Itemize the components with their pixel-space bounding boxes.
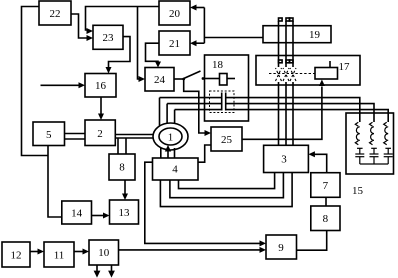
wire 10 to 9 xyxy=(119,249,261,251)
svg-text:7: 7 xyxy=(323,180,329,192)
block 25 xyxy=(211,127,242,151)
filter branches in 15 xyxy=(355,122,392,164)
capacitor plates in 18 xyxy=(221,93,223,111)
wrap wire a 4-bottom to 3-bottom xyxy=(179,173,275,189)
bus line 3 xyxy=(175,109,222,111)
svg-text:12: 12 xyxy=(11,250,22,262)
block 8 right xyxy=(311,206,340,231)
arrow into 9 lower xyxy=(260,247,267,253)
svg-text:20: 20 xyxy=(169,8,181,20)
switch pivot dots xyxy=(182,78,185,81)
switch-down wire to 25 xyxy=(184,79,205,133)
arrow into 24 top xyxy=(155,62,161,68)
relay coil 17 inner rect xyxy=(315,68,338,80)
arrow into 25 left xyxy=(205,130,212,136)
wire input arrow to 16 xyxy=(41,84,80,86)
bus line 1 xyxy=(160,97,222,99)
arrow into 21 right xyxy=(190,40,197,46)
svg-text:1: 1 xyxy=(168,132,174,144)
wire 4-right to 25 xyxy=(198,145,211,162)
arrow into 23 lower xyxy=(87,35,94,41)
svg-text:9: 9 xyxy=(278,242,284,254)
svg-text:2: 2 xyxy=(97,128,103,140)
arrow into 3 right xyxy=(308,151,315,157)
arrow into 13 top xyxy=(122,194,128,201)
block 4 xyxy=(153,158,199,180)
wire 9-right up to 8-right xyxy=(297,231,327,251)
block 16 xyxy=(85,74,116,98)
relay stub xyxy=(329,61,331,68)
wire 12 to 11 xyxy=(30,251,39,253)
block 10 xyxy=(89,240,119,265)
arrow into 16 top xyxy=(106,67,112,74)
breaker poles dashed crosses xyxy=(269,68,315,81)
arrow output 10 b xyxy=(108,271,115,278)
svg-text:25: 25 xyxy=(221,134,233,146)
block 14 xyxy=(62,201,92,224)
wire double 2 to 1 xyxy=(115,134,153,136)
wire 4-left down to 9 xyxy=(145,162,260,243)
supply terminal flags top xyxy=(279,18,283,21)
svg-text:16: 16 xyxy=(95,80,107,92)
wire 5-bottom down to 14 xyxy=(48,146,62,218)
block 17 outer xyxy=(256,56,360,86)
arrow into 2 top xyxy=(98,114,104,121)
contact flags inside 17 xyxy=(279,60,283,63)
arrow into 1 bottom up xyxy=(165,145,171,152)
arrow into 24 left xyxy=(139,76,146,82)
svg-text:23: 23 xyxy=(103,32,115,44)
block 2 xyxy=(85,120,115,146)
block 20 xyxy=(159,1,190,25)
wire 25-right up to relay 17 xyxy=(242,87,322,140)
wire 21-left to 24-top xyxy=(146,43,160,62)
wire 19-left to 20 and 21 xyxy=(204,37,263,39)
arrow into 11 xyxy=(38,249,45,255)
block 5 xyxy=(33,122,65,146)
block 11 xyxy=(44,242,74,267)
svg-text:8: 8 xyxy=(323,213,329,225)
block 15 xyxy=(346,113,394,174)
common bus in 15 xyxy=(360,163,388,165)
wire 22-right to 23 xyxy=(71,14,87,38)
block 9 xyxy=(266,235,297,259)
block 24 xyxy=(145,68,174,92)
block 18 xyxy=(205,55,249,121)
svg-text:5: 5 xyxy=(46,129,52,141)
arrow into 9 upper xyxy=(260,240,267,246)
svg-text:24: 24 xyxy=(154,74,166,86)
machine 1 outer ellipse xyxy=(153,123,188,150)
three-phase line A xyxy=(278,21,280,67)
coil line in 18 xyxy=(205,78,220,80)
svg-text:14: 14 xyxy=(71,208,83,220)
svg-text:13: 13 xyxy=(119,207,131,219)
arrow into 13 left xyxy=(103,213,110,219)
wire 14 to 13 xyxy=(92,215,105,217)
wire 11 to 10 xyxy=(74,251,84,253)
arrow into 10 xyxy=(83,249,90,255)
svg-text:19: 19 xyxy=(309,29,321,41)
svg-text:18: 18 xyxy=(212,59,224,71)
linkage dashed line xyxy=(269,73,315,75)
svg-text:22: 22 xyxy=(50,8,61,20)
block 8 left xyxy=(109,154,135,180)
machine 1 inner ellipse xyxy=(159,128,182,145)
three-phase line C xyxy=(292,21,294,67)
coil rect in 18 xyxy=(220,74,228,86)
svg-text:10: 10 xyxy=(98,247,110,259)
filter branch 2 coil xyxy=(370,122,379,164)
wrap wire b xyxy=(170,173,284,198)
switch from 24 to 18 xyxy=(174,78,184,80)
wire double 5 to 2 xyxy=(65,133,86,135)
filter branch 1 coil xyxy=(355,122,364,164)
svg-text:8: 8 xyxy=(119,162,125,174)
arrow into relay 17 up xyxy=(319,80,325,87)
ticks 1 to 4 xyxy=(160,148,162,158)
bus line 2 xyxy=(167,103,222,105)
wire 10 output arrows down xyxy=(96,265,98,272)
svg-text:11: 11 xyxy=(54,250,65,262)
wire 8-left down to 13 xyxy=(124,180,126,195)
svg-text:4: 4 xyxy=(172,164,178,176)
wire 8-right to 7 xyxy=(325,197,327,206)
filter branch 3 coil xyxy=(384,122,393,164)
svg-text:3: 3 xyxy=(281,154,287,166)
dashed box around capacitor xyxy=(210,91,235,113)
svg-text:15: 15 xyxy=(352,185,364,197)
wire drop to 8-left xyxy=(117,138,119,154)
block 22 xyxy=(39,1,71,25)
three-phase line B xyxy=(285,21,287,67)
arrow into 16 left xyxy=(79,82,86,88)
block 7 xyxy=(311,173,340,198)
block 13 xyxy=(110,200,139,224)
block 19 xyxy=(263,26,331,43)
arrow into 23 upper xyxy=(87,28,94,34)
block 23 xyxy=(93,25,123,49)
wrap wire c xyxy=(160,173,292,207)
arrowheads xyxy=(38,5,325,278)
svg-text:21: 21 xyxy=(169,38,180,50)
wire 23-right to 16-top xyxy=(109,37,131,69)
wire 7-top to 3-right xyxy=(315,154,327,172)
block 12 xyxy=(2,242,30,267)
wire 22-left long down to 14 xyxy=(22,7,49,156)
block 3 xyxy=(264,145,309,172)
wire branch down to 24-left xyxy=(138,7,141,80)
arrow output 10 a xyxy=(94,271,101,278)
block 21 xyxy=(159,31,190,55)
svg-text:17: 17 xyxy=(339,61,351,73)
wire 16-bottom to 2-top xyxy=(100,97,102,115)
wire 20-left to 23 xyxy=(86,7,160,31)
arrow into 20 right xyxy=(190,5,197,11)
